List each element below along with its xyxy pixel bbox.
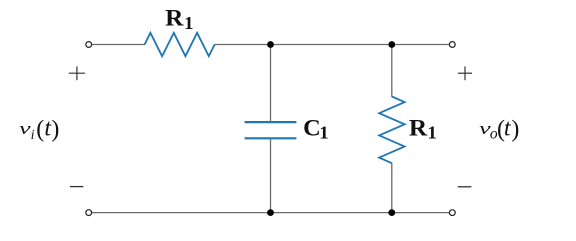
svg-text:1: 1: [427, 123, 437, 143]
svg-text:R: R: [165, 6, 184, 31]
svg-text:R: R: [409, 115, 428, 140]
wire: series R1 to node A, node A to node B, node B to output top terminal: [214, 44, 449, 46]
label: + polarity at output: [458, 66, 472, 80]
svg-text:1: 1: [184, 13, 194, 33]
terminal: input top (open circle): [86, 42, 92, 48]
wire: node B down to shunt resistor R1: [391, 45, 393, 97]
capacitor C1 (two plates): [245, 122, 297, 138]
wire: node A down to capacitor C1 top plate: [270, 45, 272, 122]
wire: input top terminal to series resistor R1: [92, 44, 145, 46]
terminal: output top (open circle): [449, 42, 455, 48]
label: + polarity at input: [69, 66, 85, 80]
label: input voltage v_i(t): [19, 115, 59, 143]
junction: node A (top of C1): [267, 41, 274, 48]
wire: capacitor C1 bottom plate down to node C: [270, 139, 272, 212]
svg-text:v: v: [19, 119, 31, 138]
label: - polarity at input: [70, 186, 83, 188]
junction: node C (bottom of C1): [267, 209, 274, 216]
svg-text:(: (: [36, 117, 44, 143]
svg-text:): ): [51, 117, 59, 143]
label: output voltage v_o(t): [479, 115, 519, 142]
resistor R1 (shunt, vertical zigzag): [379, 97, 404, 164]
terminal: input bottom (open circle): [86, 210, 92, 216]
resistor R1 (series, horizontal zigzag): [145, 33, 215, 56]
svg-text:): ): [511, 117, 519, 143]
wire: bottom rail (input bottom terminal to output bottom terminal): [92, 212, 450, 214]
svg-text:i: i: [31, 128, 35, 143]
junction: node D (bottom of shunt R1): [388, 209, 395, 216]
svg-text:C: C: [303, 115, 321, 140]
wire: shunt resistor R1 down to node D: [391, 163, 393, 213]
terminal: output bottom (open circle): [449, 210, 455, 216]
junction: node B (top of shunt R1): [388, 41, 395, 48]
label: - polarity at output: [458, 186, 472, 188]
svg-text:1: 1: [319, 123, 329, 143]
